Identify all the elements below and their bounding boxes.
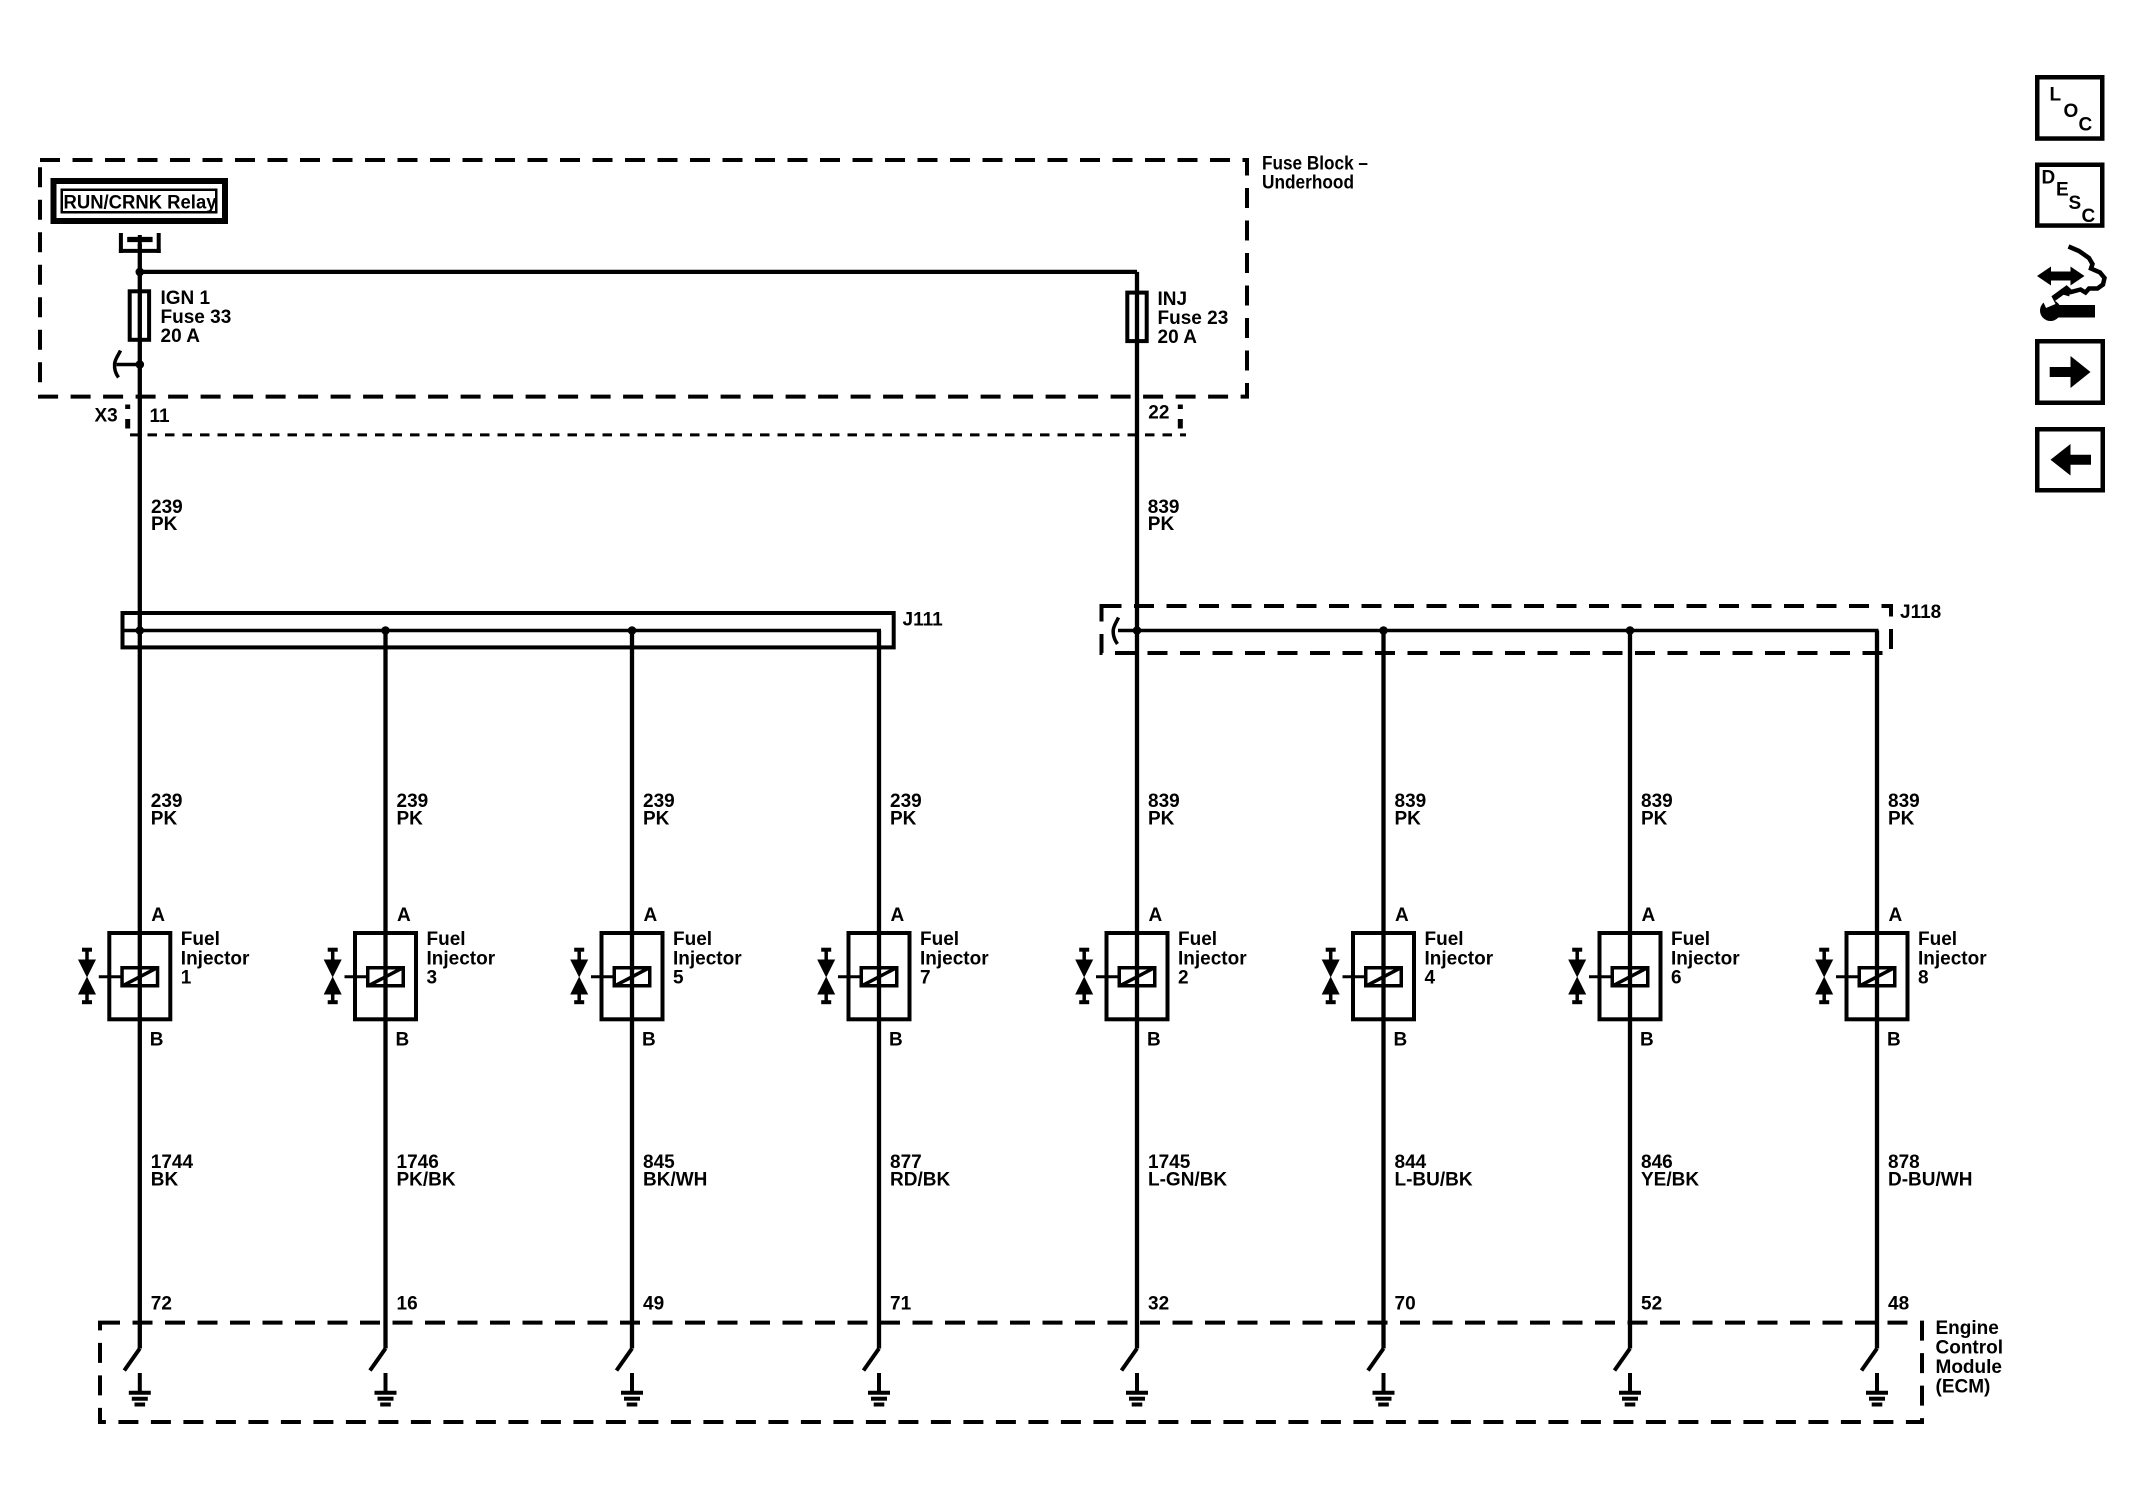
sidebar diagnostic icon (arrows and wrench) bbox=[2037, 247, 2105, 322]
svg-text:B: B bbox=[1147, 1030, 1161, 1051]
ECM internal driver stub pin 71 bbox=[864, 1349, 880, 1371]
ECM internal driver stub pin 52 bbox=[1615, 1349, 1631, 1371]
svg-text:Underhood: Underhood bbox=[1262, 173, 1354, 194]
ECM pin 70 label bbox=[1395, 1293, 1416, 1314]
wire - 239 PK inj3 drop to injector and ECM bbox=[383, 631, 387, 1349]
splice pack J111 box bbox=[123, 613, 894, 647]
svg-text:B: B bbox=[889, 1030, 903, 1051]
svg-text:E: E bbox=[2056, 180, 2069, 201]
svg-text:49: 49 bbox=[643, 1293, 664, 1314]
svg-text:B: B bbox=[150, 1030, 164, 1051]
svg-text:A: A bbox=[397, 905, 411, 926]
svg-text:A: A bbox=[1395, 905, 1409, 926]
svg-text:Fuel: Fuel bbox=[920, 929, 959, 950]
junction dot J111-2 bbox=[381, 626, 390, 635]
svg-text:A: A bbox=[891, 905, 905, 926]
splice J118 label bbox=[1900, 602, 1941, 623]
fuel injector 8 bbox=[1815, 905, 1987, 1051]
wire label 844 L-BU/BK bbox=[1395, 1152, 1473, 1191]
svg-text:Injector: Injector bbox=[1178, 948, 1247, 969]
svg-text:6: 6 bbox=[1671, 968, 1682, 989]
connector hook below IGN fuse bbox=[115, 351, 145, 378]
connector hook in J118 bbox=[1113, 618, 1118, 645]
svg-text:Fuel: Fuel bbox=[1178, 929, 1217, 950]
fuel injector 6 bbox=[1568, 905, 1740, 1051]
svg-text:Injector: Injector bbox=[1918, 948, 1987, 969]
svg-text:20 A: 20 A bbox=[161, 326, 201, 347]
wire label 839 PK at injector 4 bbox=[1395, 791, 1427, 830]
ECM pin 71 label bbox=[890, 1293, 912, 1314]
sidebar LOC button bbox=[2037, 77, 2102, 138]
svg-text:7: 7 bbox=[920, 968, 931, 989]
sidebar back arrow button bbox=[2037, 429, 2103, 490]
wire label 239 PK at injector 5 bbox=[643, 791, 675, 830]
svg-text:2: 2 bbox=[1178, 968, 1189, 989]
svg-text:8: 8 bbox=[1918, 968, 1929, 989]
svg-text:PK: PK bbox=[1148, 514, 1175, 535]
svg-text:32: 32 bbox=[1148, 1293, 1169, 1314]
svg-text:Fuel: Fuel bbox=[1671, 929, 1710, 950]
wire - 239 PK inj7 drop to injector and ECM bbox=[877, 631, 881, 1349]
svg-text:Injector: Injector bbox=[1671, 948, 1740, 969]
svg-text:PK: PK bbox=[151, 809, 178, 830]
svg-text:O: O bbox=[2064, 101, 2079, 122]
wire label 878 D-BU/WH bbox=[1888, 1152, 1972, 1191]
svg-text:3: 3 bbox=[427, 968, 438, 989]
wire label 839 PK at injector 2 bbox=[1148, 791, 1180, 830]
svg-text:BK/WH: BK/WH bbox=[643, 1169, 707, 1190]
svg-text:X3: X3 bbox=[95, 406, 118, 427]
svg-text:PK: PK bbox=[1641, 809, 1668, 830]
ECM pin 48 label bbox=[1888, 1293, 1909, 1314]
ECM internal driver stub pin 72 bbox=[124, 1349, 140, 1371]
junction dot J111-3 bbox=[628, 626, 637, 635]
svg-text:J118: J118 bbox=[1900, 602, 1941, 623]
ground symbol pin 71 bbox=[868, 1373, 890, 1405]
ECM internal driver stub pin 16 bbox=[370, 1349, 386, 1371]
svg-text:L-BU/BK: L-BU/BK bbox=[1395, 1169, 1473, 1190]
engine control module label bbox=[1936, 1318, 2004, 1398]
fuel injector 5 bbox=[570, 905, 742, 1051]
splice J111 bus wire bbox=[124, 629, 881, 633]
wire label 239 PK (feed) bbox=[151, 497, 183, 535]
sidebar next arrow button bbox=[2037, 341, 2103, 403]
fuel injector 4 bbox=[1322, 905, 1494, 1051]
fuel injector 3 bbox=[324, 905, 496, 1051]
junction dot J118-1 bbox=[1133, 626, 1142, 635]
wire label 239 PK at injector 7 bbox=[890, 791, 922, 830]
svg-text:Engine: Engine bbox=[1936, 1318, 1999, 1339]
junction dot at relay output bbox=[136, 268, 145, 277]
engine control module dashed box bbox=[100, 1323, 1922, 1422]
svg-text:A: A bbox=[1642, 905, 1656, 926]
svg-text:48: 48 bbox=[1888, 1293, 1909, 1314]
svg-text:B: B bbox=[642, 1030, 656, 1051]
svg-text:RUN/CRNK Relay: RUN/CRNK Relay bbox=[64, 193, 217, 214]
junction dot J111-1 bbox=[136, 626, 145, 635]
svg-text:S: S bbox=[2069, 193, 2082, 214]
ground symbol pin 48 bbox=[1866, 1373, 1888, 1405]
ground symbol pin 32 bbox=[1126, 1373, 1148, 1405]
fuse block - underhood dashed box bbox=[40, 160, 1247, 397]
svg-text:A: A bbox=[1149, 905, 1163, 926]
pin 22 label bbox=[1148, 403, 1183, 429]
svg-text:20 A: 20 A bbox=[1158, 327, 1198, 348]
svg-text:C: C bbox=[2082, 206, 2096, 227]
svg-text:A: A bbox=[151, 905, 165, 926]
wire - 839 PK inj6 drop to injector and ECM bbox=[1628, 631, 1632, 1349]
svg-text:4: 4 bbox=[1425, 968, 1436, 989]
svg-text:Fuse 23: Fuse 23 bbox=[1158, 308, 1229, 329]
svg-text:PK: PK bbox=[1888, 809, 1915, 830]
svg-text:Fuel: Fuel bbox=[181, 929, 220, 950]
svg-text:RD/BK: RD/BK bbox=[890, 1169, 950, 1190]
ECM pin 72 label bbox=[151, 1293, 172, 1314]
ECM internal driver stub pin 70 bbox=[1368, 1349, 1384, 1371]
svg-text:Fuel: Fuel bbox=[673, 929, 712, 950]
ECM internal driver stub pin 49 bbox=[617, 1349, 633, 1371]
svg-text:INJ: INJ bbox=[1158, 289, 1188, 310]
svg-text:B: B bbox=[1394, 1030, 1408, 1051]
svg-text:Control: Control bbox=[1936, 1338, 2004, 1359]
wire - 839 PK inj8 drop to injector and ECM bbox=[1875, 631, 1879, 1349]
wire - 239 PK inj5 drop to injector and ECM bbox=[630, 631, 634, 1349]
ground symbol pin 16 bbox=[375, 1373, 397, 1405]
ECM internal driver stub pin 32 bbox=[1122, 1349, 1138, 1371]
ground symbol pin 70 bbox=[1373, 1373, 1395, 1405]
wire label 846 YE/BK bbox=[1641, 1152, 1699, 1191]
wire label 239 PK at injector 1 bbox=[151, 791, 183, 830]
ground symbol pin 49 bbox=[621, 1373, 643, 1405]
ground symbol pin 52 bbox=[1619, 1373, 1641, 1405]
svg-text:PK: PK bbox=[1148, 809, 1175, 830]
svg-text:16: 16 bbox=[397, 1293, 418, 1314]
fuse block label bbox=[1262, 154, 1368, 194]
fuel injector 7 bbox=[817, 905, 989, 1051]
splice J118 bus wire bbox=[1118, 629, 1879, 633]
svg-text:Fuel: Fuel bbox=[1918, 929, 1957, 950]
svg-text:Injector: Injector bbox=[427, 948, 496, 969]
svg-text:PK: PK bbox=[890, 809, 917, 830]
ECM internal driver stub pin 48 bbox=[1862, 1349, 1878, 1371]
svg-text:B: B bbox=[1887, 1030, 1901, 1051]
junction dot J118-2 bbox=[1379, 626, 1388, 635]
svg-text:Module: Module bbox=[1936, 1357, 2003, 1378]
relay contact symbol bbox=[119, 233, 161, 253]
wire label 239 PK at injector 3 bbox=[397, 791, 429, 830]
ECM pin 49 label bbox=[643, 1293, 664, 1314]
wire - relay to junction, vertical feed left bbox=[138, 244, 142, 631]
svg-text:22: 22 bbox=[1148, 403, 1169, 424]
splice pack J118 dashed box bbox=[1102, 606, 1892, 653]
pin 11 label bbox=[150, 406, 171, 427]
wire label 1744 BK bbox=[151, 1152, 194, 1191]
svg-text:L: L bbox=[2050, 85, 2062, 106]
svg-text:PK: PK bbox=[151, 514, 178, 535]
svg-text:1: 1 bbox=[181, 968, 192, 989]
svg-text:IGN 1: IGN 1 bbox=[161, 288, 211, 309]
svg-text:A: A bbox=[644, 905, 658, 926]
svg-text:PK: PK bbox=[397, 809, 424, 830]
wire label 1746 PK/BK bbox=[397, 1152, 456, 1191]
splice J111 label bbox=[903, 610, 944, 631]
wire - 839 PK inj2 drop to injector and ECM bbox=[1135, 631, 1139, 1349]
svg-text:70: 70 bbox=[1395, 1293, 1416, 1314]
svg-text:Fuel: Fuel bbox=[1425, 929, 1464, 950]
wire label 839 PK (feed) bbox=[1148, 497, 1180, 535]
svg-text:Injector: Injector bbox=[673, 948, 742, 969]
svg-text:C: C bbox=[2079, 115, 2093, 136]
svg-text:71: 71 bbox=[890, 1293, 912, 1314]
svg-text:PK/BK: PK/BK bbox=[397, 1169, 456, 1190]
wire label 839 PK at injector 6 bbox=[1641, 791, 1673, 830]
wire - INJ fuse drop bbox=[1135, 272, 1139, 631]
svg-text:5: 5 bbox=[673, 968, 684, 989]
svg-text:Fuel: Fuel bbox=[427, 929, 466, 950]
ground symbol pin 72 bbox=[129, 1373, 151, 1405]
wire - 839 PK inj4 drop to injector and ECM bbox=[1381, 631, 1385, 1349]
svg-text:11: 11 bbox=[150, 406, 171, 427]
svg-text:D: D bbox=[2042, 168, 2056, 189]
svg-text:A: A bbox=[1889, 905, 1903, 926]
sidebar DESC button bbox=[2037, 165, 2102, 227]
svg-text:Fuse 33: Fuse 33 bbox=[161, 307, 232, 328]
wire - 239 PK inj1 drop to injector and ECM bbox=[138, 631, 142, 1349]
junction dot J118-3 bbox=[1626, 626, 1635, 635]
wire label 845 BK/WH bbox=[643, 1152, 707, 1191]
wire label 1745 L-GN/BK bbox=[1148, 1152, 1227, 1191]
relay RUN/CRNK box bbox=[54, 181, 226, 221]
svg-text:PK: PK bbox=[643, 809, 670, 830]
svg-text:D-BU/WH: D-BU/WH bbox=[1888, 1169, 1972, 1190]
svg-text:Injector: Injector bbox=[1425, 948, 1494, 969]
svg-text:Injector: Injector bbox=[920, 948, 989, 969]
wire - horizontal feed from relay to INJ fuse bbox=[140, 270, 1137, 274]
svg-text:YE/BK: YE/BK bbox=[1641, 1169, 1699, 1190]
connector X3 label bbox=[95, 405, 131, 429]
ECM pin 52 label bbox=[1641, 1293, 1662, 1314]
svg-text:52: 52 bbox=[1641, 1293, 1662, 1314]
connector X3 dotted line bbox=[130, 433, 1186, 436]
fuse IGN 1 Fuse 33 20 A bbox=[130, 288, 232, 347]
svg-text:PK: PK bbox=[1395, 809, 1422, 830]
svg-text:(ECM): (ECM) bbox=[1936, 1377, 1991, 1398]
svg-text:L-GN/BK: L-GN/BK bbox=[1148, 1169, 1227, 1190]
fuel injector 2 bbox=[1075, 905, 1247, 1051]
svg-text:Fuse Block –: Fuse Block – bbox=[1262, 154, 1368, 175]
svg-text:J111: J111 bbox=[903, 610, 944, 631]
svg-text:BK: BK bbox=[151, 1169, 179, 1190]
ECM pin 16 label bbox=[397, 1293, 418, 1314]
svg-text:Injector: Injector bbox=[181, 948, 250, 969]
svg-text:B: B bbox=[396, 1030, 410, 1051]
ECM pin 32 label bbox=[1148, 1293, 1169, 1314]
svg-text:72: 72 bbox=[151, 1293, 172, 1314]
wire label 839 PK at injector 8 bbox=[1888, 791, 1920, 830]
wire label 877 RD/BK bbox=[890, 1152, 950, 1191]
svg-text:B: B bbox=[1640, 1030, 1654, 1051]
fuel injector 1 bbox=[78, 905, 250, 1051]
fuse INJ Fuse 23 20 A bbox=[1127, 289, 1228, 348]
